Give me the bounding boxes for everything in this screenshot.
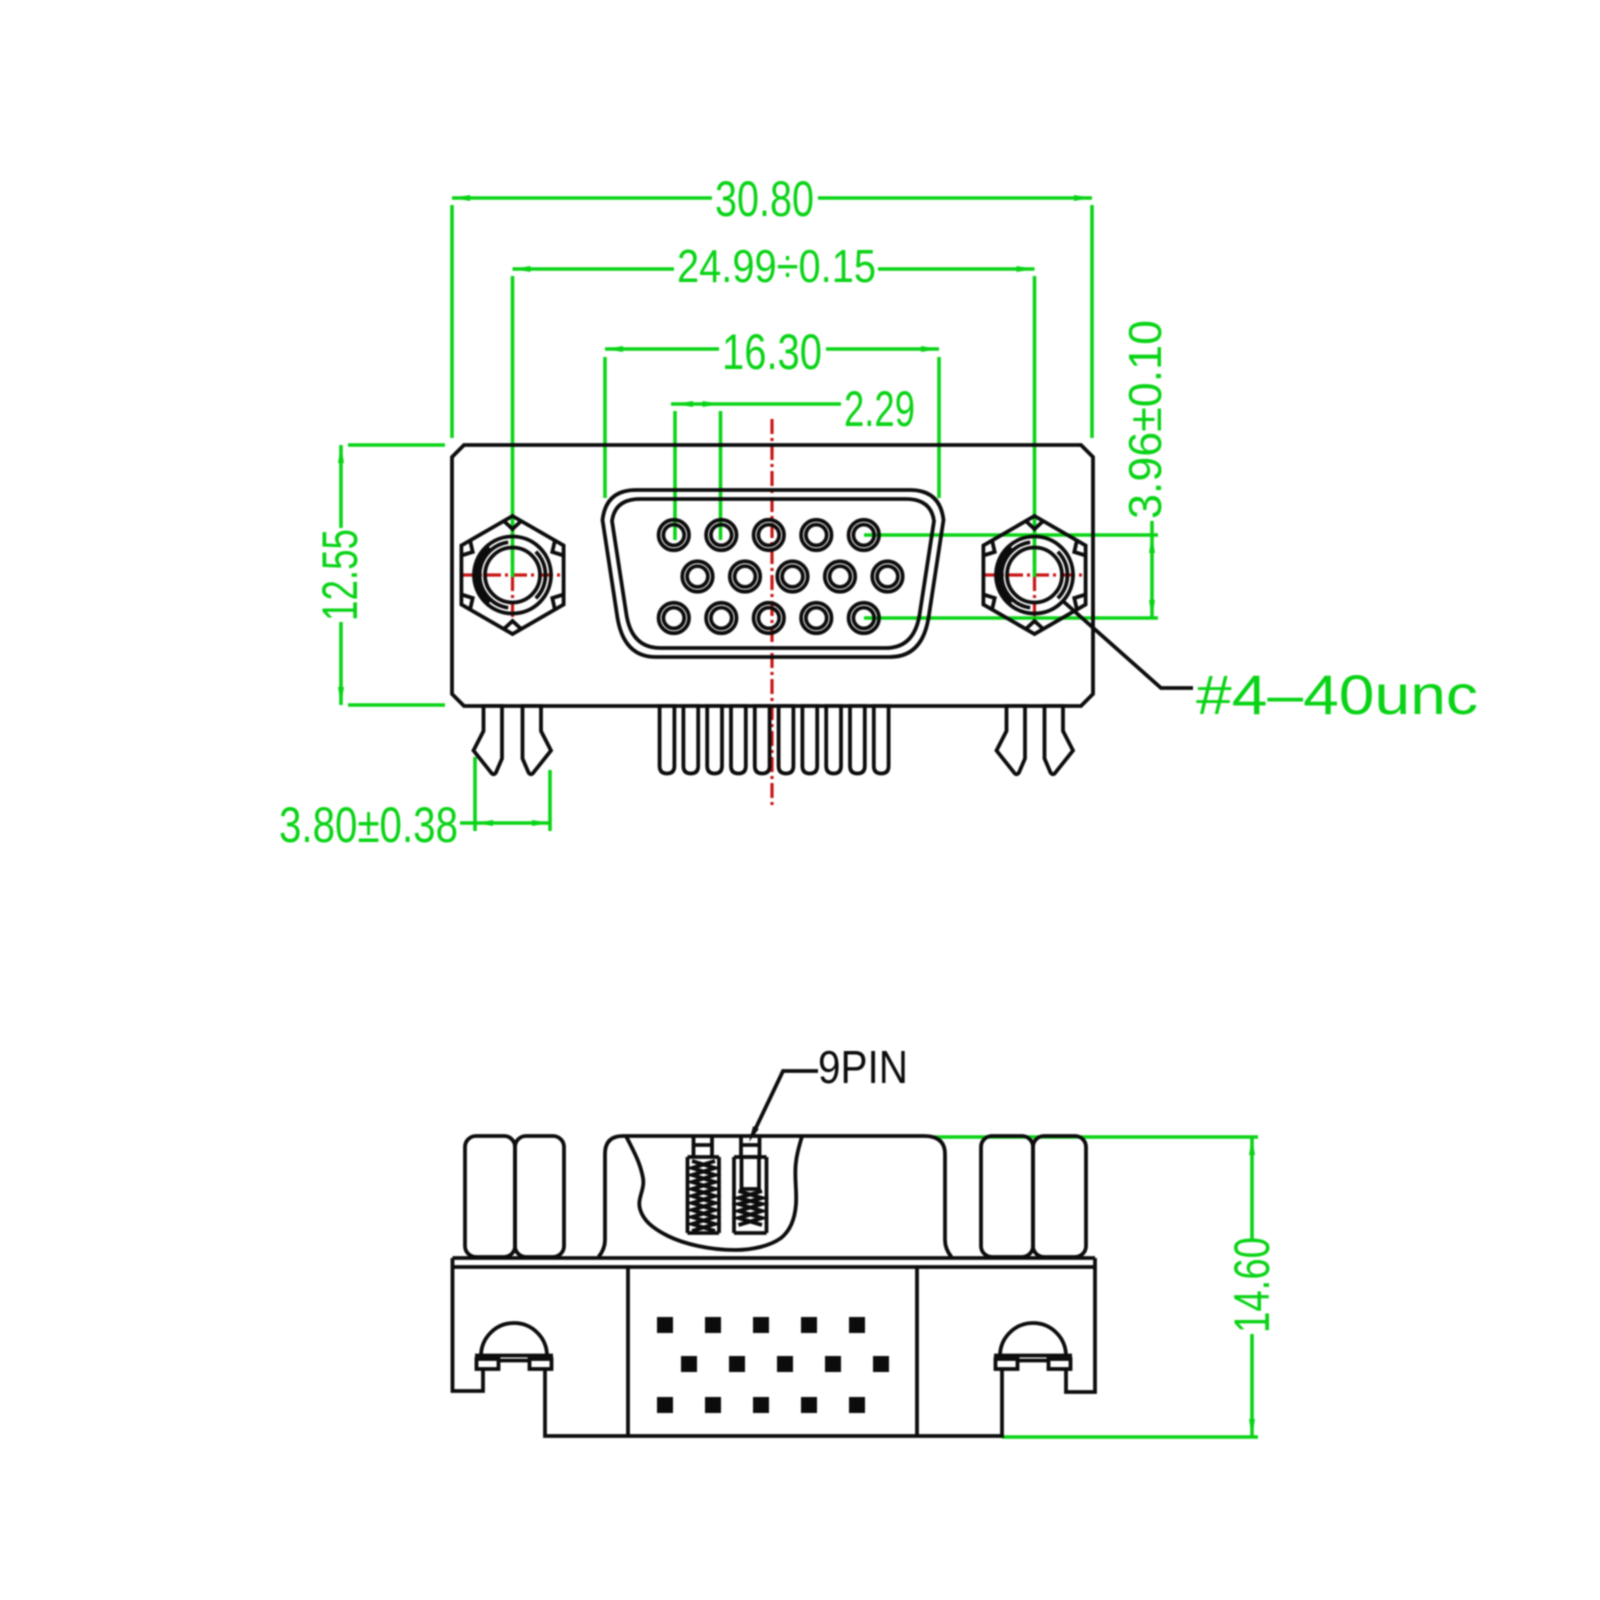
bottom view contact square r1c3 <box>753 1317 769 1333</box>
pin 10 <box>874 706 889 774</box>
right standoff side view panel 2 <box>1033 1136 1086 1257</box>
dim 12.55 line <box>339 445 343 528</box>
section cutaway boundary <box>626 1136 802 1250</box>
centerline vertical front view <box>770 419 773 806</box>
housing section divider right <box>915 1267 919 1436</box>
dim 30.80 line <box>452 196 712 200</box>
pin 4 <box>731 706 746 774</box>
contact slot 2 pin <box>742 1157 760 1189</box>
connector body front view <box>452 445 1093 706</box>
contact slot 1 walls <box>688 1157 720 1233</box>
bottom view contact square r1c1 <box>657 1317 673 1333</box>
bottom view contact square r2c1 <box>681 1356 697 1372</box>
svg-text:2.29: 2.29 <box>844 381 915 437</box>
board lock right pair left pin <box>997 706 1026 774</box>
dim 16.30 ext lines <box>603 357 607 498</box>
hole row3 c4 <box>801 603 831 633</box>
board lock left pair right pin <box>523 706 552 774</box>
svg-text:#4–40unc: #4–40unc <box>1196 663 1478 726</box>
right standoff side view panel 1 <box>981 1136 1033 1257</box>
left standoff side view panel 1 <box>465 1136 515 1257</box>
flange strip bottom line <box>453 1265 1096 1269</box>
D-sub shell inner <box>612 499 934 648</box>
flange strip top line <box>453 1256 1096 1260</box>
svg-text:9PIN: 9PIN <box>818 1041 908 1093</box>
hole row1 c1 <box>659 520 689 550</box>
left hex standoff nut <box>461 516 563 634</box>
bottom view contact square r2c3 <box>777 1356 793 1372</box>
pin 8 <box>826 706 841 774</box>
hole row2 c5 <box>872 561 902 591</box>
housing section divider left <box>626 1267 630 1436</box>
hole row3 c1 <box>659 603 689 633</box>
pin 7 <box>802 706 817 774</box>
pin 6 <box>779 706 794 774</box>
D-sub shell outer <box>603 490 944 657</box>
dim 24.99 ext lines <box>511 276 515 577</box>
bottom view contact square r2c2 <box>729 1356 745 1372</box>
hole row1 c4 <box>801 520 831 550</box>
svg-text:3.80±0.38: 3.80±0.38 <box>279 797 458 853</box>
pin 1 <box>660 706 675 774</box>
hole row1 c2 <box>706 520 736 550</box>
contact slot 1 spring <box>692 1161 715 1231</box>
dim 3.80 ext lines <box>473 757 477 831</box>
left board lock dome <box>475 1323 553 1369</box>
leader to 9PIN <box>752 1071 818 1136</box>
dim 14.60 line <box>1250 1137 1254 1240</box>
insulator body bottom view outline <box>599 1136 952 1257</box>
dim 3.80 line <box>460 821 550 825</box>
bottom view contact square r3c3 <box>753 1397 769 1413</box>
dim 24.99 line <box>513 267 675 271</box>
centerline left nut horizontal <box>460 573 563 576</box>
leader to #4-40unc <box>1064 602 1193 688</box>
bottom view contact square r3c2 <box>705 1397 721 1413</box>
hole row1 c5 <box>849 520 879 550</box>
contact slot 2 neck <box>741 1137 760 1157</box>
bottom view contact square r1c2 <box>705 1317 721 1333</box>
lower housing outline <box>453 1258 1096 1436</box>
dim 2.29 ext lines <box>673 411 677 540</box>
hole row2 c4 <box>825 561 855 591</box>
pin 2 <box>683 706 698 774</box>
bottom view contact square r2c5 <box>873 1356 889 1372</box>
hole row2 c1 <box>682 561 712 591</box>
svg-text:16.30: 16.30 <box>722 324 822 380</box>
dim 3.96 ext lines <box>864 533 1158 537</box>
left standoff side view panel 2 <box>515 1136 564 1257</box>
dim 3.96 line <box>1150 521 1154 618</box>
pin 3 <box>707 706 722 774</box>
hole row1 c3 <box>754 520 784 550</box>
bottom view contact square r3c5 <box>849 1397 865 1413</box>
dim 16.30 line <box>605 347 719 351</box>
bottom view contact square r3c1 <box>657 1397 673 1413</box>
dim 2.29 line <box>671 402 841 406</box>
hole row2 c2 <box>730 561 760 591</box>
bottom view contact square r1c4 <box>801 1317 817 1333</box>
pin 5 <box>755 706 770 774</box>
right hex standoff nut <box>983 516 1085 634</box>
right board lock dome <box>994 1323 1072 1369</box>
hole row3 c2 <box>706 603 736 633</box>
svg-text:3.96±0.10: 3.96±0.10 <box>1119 320 1171 519</box>
contact slot 2 walls <box>734 1157 767 1233</box>
contact slot 1 neck <box>694 1137 713 1157</box>
dim 30.80 ext lines <box>450 205 454 438</box>
svg-text:30.80: 30.80 <box>715 171 814 227</box>
bottom view contact square r1c5 <box>849 1317 865 1333</box>
dim 14.60 ext lines <box>934 1135 1258 1139</box>
bottom view contact square r3c4 <box>801 1397 817 1413</box>
centerline left nut vertical <box>511 524 514 626</box>
bottom view contact square r2c4 <box>825 1356 841 1372</box>
hole row3 c3 <box>754 603 784 633</box>
contact slot 2 spring <box>739 1191 763 1225</box>
hole row3 c5 <box>849 603 879 633</box>
svg-text:24.99÷0.15: 24.99÷0.15 <box>677 240 876 292</box>
board lock left pair left pin <box>474 706 503 774</box>
svg-text:14.60: 14.60 <box>1224 1237 1280 1333</box>
svg-text:12.55: 12.55 <box>312 529 368 621</box>
centerline right nut horizontal <box>982 573 1086 576</box>
hole row2 c3 <box>777 561 807 591</box>
centerline right nut vertical <box>1033 524 1036 628</box>
dim 12.55 ext lines <box>348 443 445 447</box>
board lock right pair right pin <box>1045 706 1074 774</box>
pin 9 <box>850 706 865 774</box>
